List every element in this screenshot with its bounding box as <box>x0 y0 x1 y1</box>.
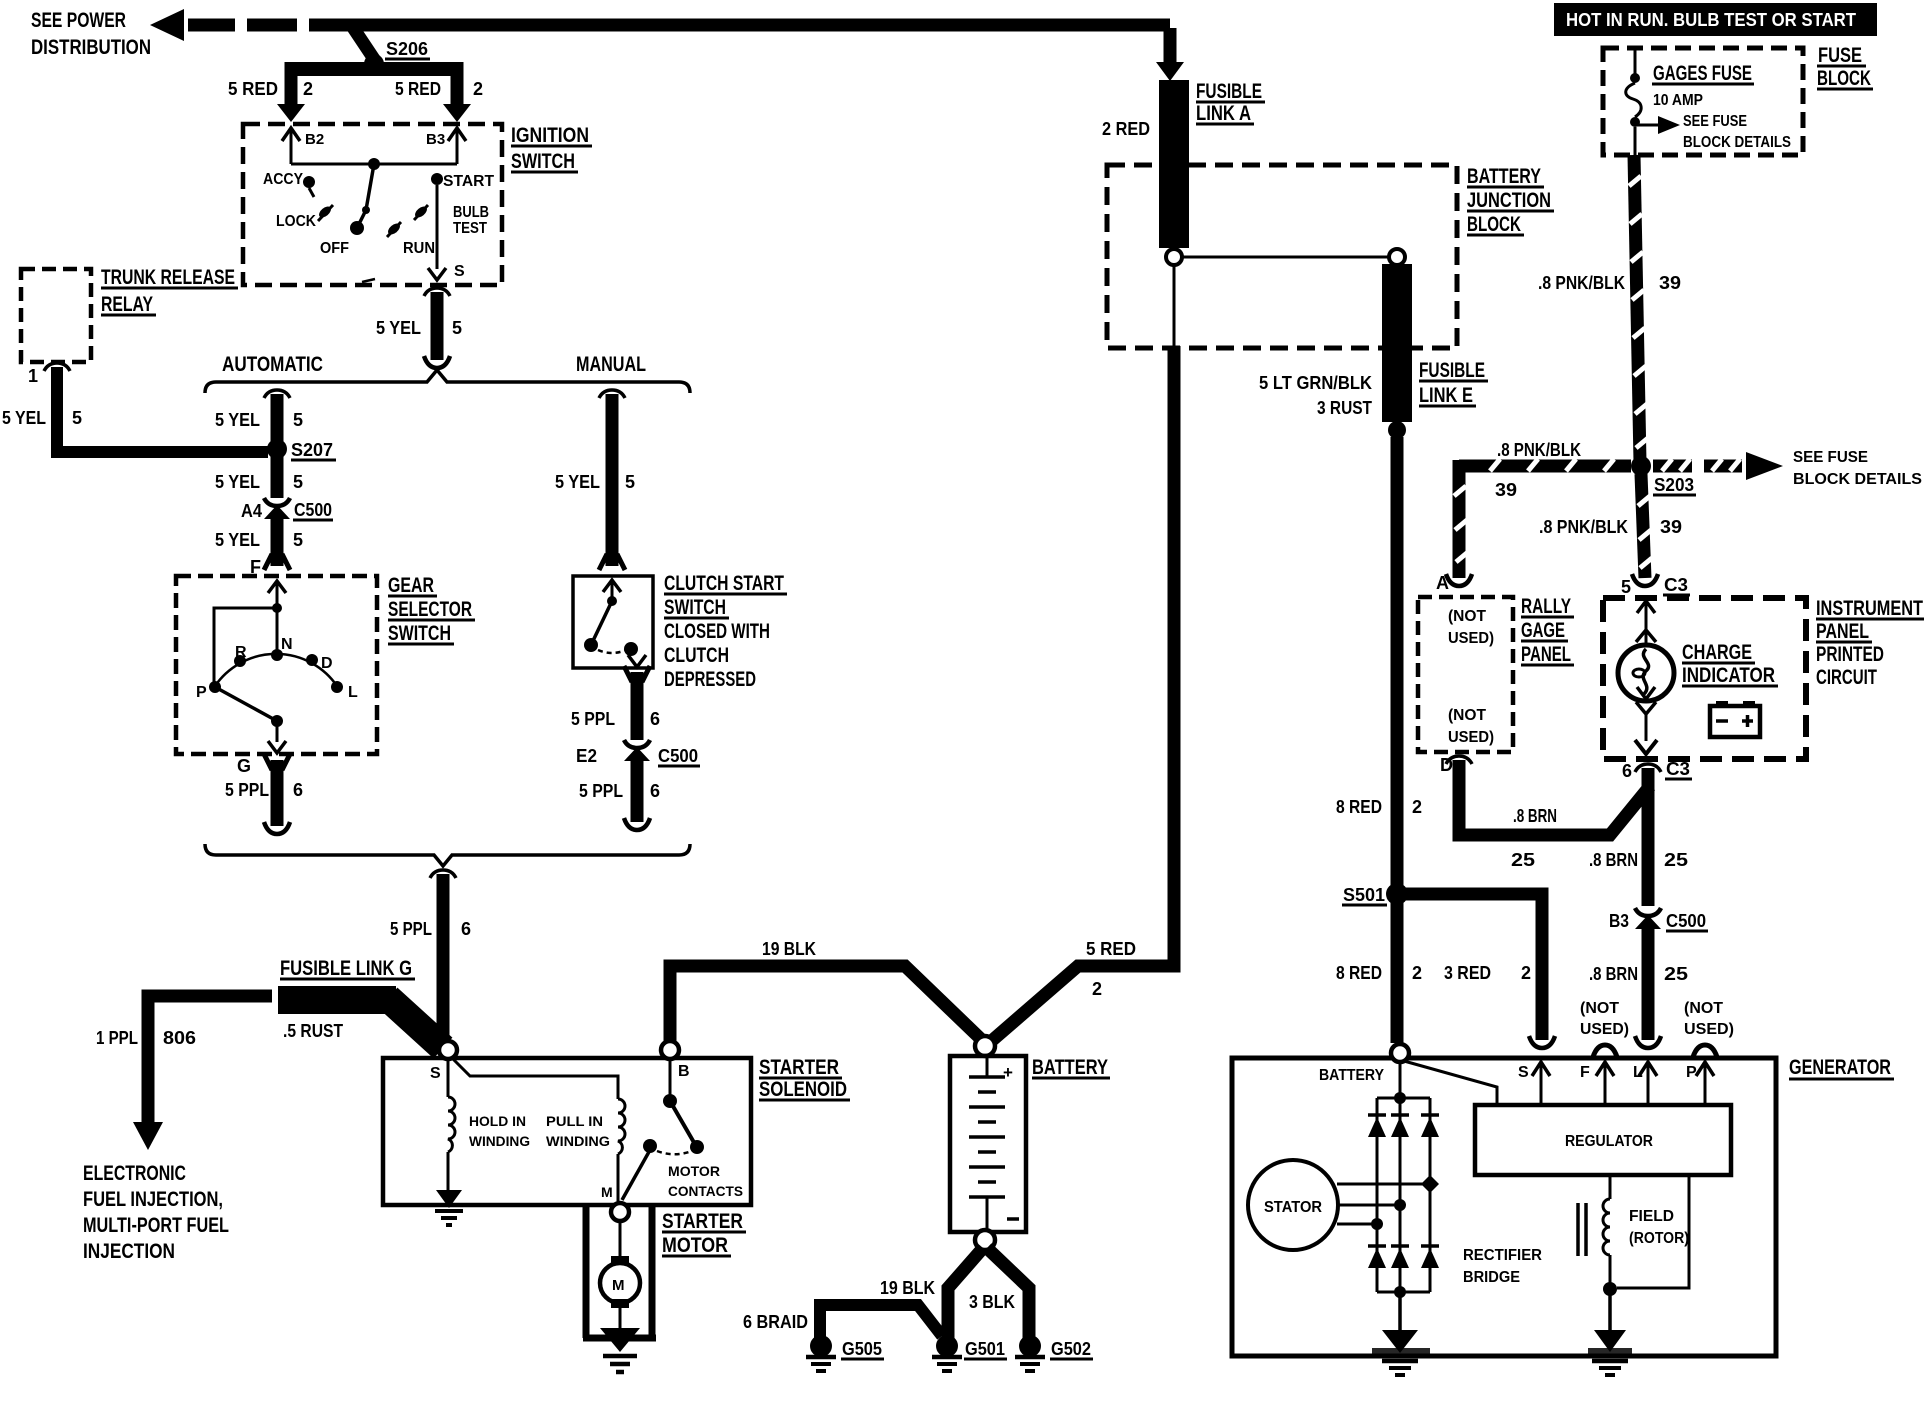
svg-text:GAGE: GAGE <box>1521 619 1565 642</box>
label MOTOR CONTACTS <box>668 1163 743 1199</box>
svg-text:5 YEL: 5 YEL <box>2 408 46 428</box>
svg-text:CLUTCH START: CLUTCH START <box>664 572 784 595</box>
svg-text:6: 6 <box>650 709 660 729</box>
svg-text:B: B <box>678 1063 690 1080</box>
svg-text:25: 25 <box>1664 850 1688 870</box>
generator terminal L <box>1633 1062 1657 1105</box>
ignition internal bus wire <box>291 163 457 166</box>
wire 5 RED below junction block <box>1168 346 1181 962</box>
solenoid internal wire S to pull-in <box>452 1058 618 1099</box>
gear selector switch box <box>176 576 377 754</box>
wire 5 RED bus below S206 <box>285 62 461 76</box>
label PULL IN WINDING <box>546 1113 610 1149</box>
gear selector input arrow <box>268 581 286 652</box>
ignition rotor junction <box>368 158 380 170</box>
svg-text:2: 2 <box>1092 979 1102 999</box>
terminal M circle <box>601 1184 629 1221</box>
striped dashed arrow S203 to see fuse block details <box>1653 449 1922 488</box>
svg-text:S: S <box>454 263 465 280</box>
svg-text:6: 6 <box>461 919 471 939</box>
node S207 <box>267 439 336 460</box>
banner HOT IN RUN BULB TEST OR START <box>1554 3 1877 36</box>
svg-text:5: 5 <box>293 472 303 492</box>
svg-text:SWITCH: SWITCH <box>664 596 726 619</box>
svg-text:S206: S206 <box>386 39 428 59</box>
svg-text:8 RED: 8 RED <box>1336 797 1382 817</box>
battery cells <box>969 1056 1019 1230</box>
rectifier bridge rails <box>1377 1092 1430 1298</box>
ignition S terminal wire <box>362 185 465 282</box>
wire 19 BLK solenoid B to battery <box>670 939 985 1043</box>
svg-text:WINDING: WINDING <box>469 1133 530 1149</box>
junction block internal bus <box>1166 249 1405 348</box>
svg-text:E2: E2 <box>576 746 597 766</box>
svg-text:USED): USED) <box>1448 630 1494 647</box>
connector E2 C500 <box>576 740 700 766</box>
svg-text:CONTACTS: CONTACTS <box>668 1183 743 1199</box>
svg-text:.8 BRN: .8 BRN <box>1589 850 1638 870</box>
wire 5 YEL relay to S207 <box>2 363 268 452</box>
label INSTRUMENT PANEL PRINTED CIRCUIT <box>1816 597 1924 689</box>
svg-text:OFF: OFF <box>320 240 349 257</box>
trunk release relay box <box>21 269 91 362</box>
svg-text:(NOT: (NOT <box>1684 1000 1723 1017</box>
svg-text:WINDING: WINDING <box>546 1133 610 1149</box>
svg-text:IGNITION: IGNITION <box>511 124 589 147</box>
svg-text:LOCK: LOCK <box>276 213 316 230</box>
ground G505 <box>806 1335 884 1371</box>
wire 1 PPL to EFI <box>96 996 272 1150</box>
stator phase wires <box>1337 1175 1439 1230</box>
ignition contact ACCY <box>263 171 315 197</box>
svg-text:8 RED: 8 RED <box>1336 963 1382 983</box>
svg-text:.8 BRN: .8 BRN <box>1589 964 1638 984</box>
svg-text:S203: S203 <box>1654 475 1694 495</box>
svg-text:SELECTOR: SELECTOR <box>388 598 472 621</box>
svg-text:M: M <box>612 1277 625 1294</box>
svg-text:5 PPL: 5 PPL <box>579 781 623 801</box>
gear selector wiper <box>215 687 286 753</box>
svg-text:806: 806 <box>163 1028 196 1048</box>
label RALLY GAGE PANEL <box>1521 595 1574 666</box>
svg-text:.8 PNK/BLK: .8 PNK/BLK <box>1497 440 1581 460</box>
charge indicator lamp <box>1618 601 1674 754</box>
svg-text:SEE FUSE: SEE FUSE <box>1683 113 1747 130</box>
label GENERATOR <box>1789 1056 1894 1079</box>
generator terminal S <box>1518 1062 1550 1105</box>
svg-text:BATTERY: BATTERY <box>1467 165 1541 188</box>
svg-text:.8 PNK/BLK: .8 PNK/BLK <box>1538 273 1625 293</box>
wire .8 PNK/BLK S203 left branch to rally gage A (striped) <box>1446 440 1631 586</box>
wire 5 PPL from gear selector G <box>225 754 303 834</box>
label BATTERY <box>1032 1056 1110 1079</box>
svg-text:.5 RUST: .5 RUST <box>283 1021 343 1041</box>
rectifier diodes lower <box>1368 1246 1439 1268</box>
svg-text:C500: C500 <box>658 746 698 766</box>
svg-text:2 RED: 2 RED <box>1102 119 1150 139</box>
svg-text:3 BLK: 3 BLK <box>969 1292 1015 1312</box>
wire regulator to field return <box>1617 1175 1689 1288</box>
ground G501 <box>932 1335 1007 1371</box>
svg-text:2: 2 <box>1412 963 1422 983</box>
svg-text:.8 BRN: .8 BRN <box>1513 806 1557 826</box>
ignition contact START <box>431 173 494 190</box>
svg-text:6: 6 <box>650 781 660 801</box>
stator circle <box>1248 1160 1338 1250</box>
svg-text:39: 39 <box>1659 273 1681 293</box>
wire 5 YEL automatic branch upper <box>215 390 303 498</box>
label FIELD ROTOR <box>1629 1208 1689 1247</box>
svg-text:GENERATOR: GENERATOR <box>1789 1056 1891 1079</box>
svg-text:SOLENOID: SOLENOID <box>759 1078 847 1101</box>
svg-text:S: S <box>430 1065 441 1082</box>
svg-text:MANUAL: MANUAL <box>576 353 646 376</box>
label NOT USED lower <box>1448 707 1494 746</box>
ignition wiper to OFF <box>350 164 374 235</box>
wire dashed feed to power distribution with arrowhead <box>150 9 354 41</box>
label HOLD IN WINDING <box>469 1113 530 1149</box>
svg-text:SWITCH: SWITCH <box>511 150 575 173</box>
svg-text:D: D <box>321 655 333 672</box>
svg-text:STARTER: STARTER <box>662 1210 743 1233</box>
svg-text:M: M <box>601 1184 613 1200</box>
svg-text:A: A <box>1436 573 1449 593</box>
gages fuse <box>1626 48 1754 155</box>
connector B3 C500 <box>1609 908 1708 931</box>
svg-text:PRINTED: PRINTED <box>1816 643 1884 666</box>
svg-text:ELECTRONIC: ELECTRONIC <box>83 1162 186 1185</box>
brace automatic/manual split <box>205 370 690 393</box>
svg-text:INJECTION: INJECTION <box>83 1240 175 1263</box>
svg-text:S501: S501 <box>1343 885 1385 905</box>
svg-text:5: 5 <box>452 318 462 338</box>
svg-text:3 RUST: 3 RUST <box>1317 398 1372 418</box>
connector A4 C500 <box>241 498 333 521</box>
svg-text:R: R <box>235 644 247 661</box>
svg-text:PULL IN: PULL IN <box>546 1113 603 1129</box>
starter motor ground <box>600 1328 640 1372</box>
svg-text:5 RED: 5 RED <box>1086 939 1136 959</box>
svg-text:GAGES FUSE: GAGES FUSE <box>1653 62 1752 85</box>
label NOT USED at P <box>1684 1000 1734 1057</box>
svg-text:GEAR: GEAR <box>388 574 434 597</box>
label CHARGE INDICATOR <box>1682 641 1778 687</box>
svg-text:BRIDGE: BRIDGE <box>1463 1269 1520 1286</box>
svg-text:FUSIBLE LINK G: FUSIBLE LINK G <box>280 957 412 980</box>
terminal S circle <box>430 1041 457 1082</box>
starter motor armature <box>600 1221 640 1330</box>
svg-text:PANEL: PANEL <box>1521 643 1571 666</box>
ignition terminal B2 <box>282 128 324 164</box>
wire 5 YEL manual branch <box>555 390 635 570</box>
svg-text:5 YEL: 5 YEL <box>215 472 260 492</box>
svg-text:LINK E: LINK E <box>1419 384 1473 407</box>
svg-text:DISTRIBUTION: DISTRIBUTION <box>31 36 151 59</box>
svg-text:RELAY: RELAY <box>101 293 153 316</box>
svg-text:N: N <box>281 636 293 653</box>
label RECTIFIER BRIDGE <box>1463 1247 1542 1286</box>
svg-text:P: P <box>196 684 207 701</box>
svg-text:HOLD IN: HOLD IN <box>469 1113 526 1129</box>
svg-text:CIRCUIT: CIRCUIT <box>1816 666 1877 689</box>
svg-text:SEE FUSE: SEE FUSE <box>1793 449 1868 466</box>
wire battery terminal to regulator <box>1404 1061 1497 1105</box>
rectifier ground <box>1372 1292 1430 1375</box>
wire .8 BRN rally D to C3-6 <box>1446 756 1650 870</box>
fusible link A <box>1159 80 1265 248</box>
svg-text:5 RED: 5 RED <box>228 79 278 99</box>
wire .8 BRN C3-6 to C500 <box>1589 768 1688 906</box>
wire 19 BLK battery to G501 <box>948 1248 983 1338</box>
svg-text:.8 PNK/BLK: .8 PNK/BLK <box>1539 517 1628 537</box>
pull-in winding coil <box>618 1099 625 1203</box>
svg-text:25: 25 <box>1664 964 1688 984</box>
ignition terminal B3 <box>426 128 466 164</box>
svg-text:CHARGE: CHARGE <box>1682 641 1752 664</box>
svg-text:25: 25 <box>1511 850 1535 870</box>
svg-text:1: 1 <box>28 366 38 386</box>
svg-text:(NOT: (NOT <box>1448 608 1486 625</box>
svg-text:INSTRUMENT: INSTRUMENT <box>1816 597 1923 620</box>
svg-text:G502: G502 <box>1051 1339 1091 1359</box>
field ground <box>1588 1330 1632 1375</box>
label FUSE BLOCK <box>1817 44 1873 90</box>
svg-text:FUEL INJECTION,: FUEL INJECTION, <box>83 1188 223 1211</box>
wire 5 YEL from ignition S <box>376 288 462 368</box>
svg-text:S: S <box>1518 1064 1529 1081</box>
svg-text:STATOR: STATOR <box>1264 1199 1322 1216</box>
svg-text:2: 2 <box>1521 963 1531 983</box>
svg-text:USED): USED) <box>1580 1021 1629 1038</box>
connector 5 C3 <box>1621 575 1690 597</box>
svg-text:RALLY: RALLY <box>1521 595 1571 618</box>
battery minus terminal circle <box>975 1230 995 1250</box>
generator terminal F <box>1580 1062 1614 1105</box>
svg-text:6: 6 <box>1622 761 1632 781</box>
svg-text:SWITCH: SWITCH <box>388 622 451 645</box>
svg-text:6 BRAID: 6 BRAID <box>743 1312 808 1332</box>
wire main feed bus top <box>350 19 1170 32</box>
label CLUTCH START SWITCH CLOSED WITH CLUTCH DEPRESSED <box>664 572 787 691</box>
wire 3 RED S501 to generator S <box>1397 894 1555 1048</box>
svg-text:ACCY: ACCY <box>263 171 303 188</box>
svg-text:BLOCK DETAILS: BLOCK DETAILS <box>1683 134 1791 151</box>
rectifier diodes upper <box>1368 1115 1439 1137</box>
svg-text:5: 5 <box>293 410 303 430</box>
svg-text:39: 39 <box>1660 517 1682 537</box>
svg-text:5 PPL: 5 PPL <box>571 709 615 729</box>
fusible link G fat link <box>278 998 443 1048</box>
wire 5 PPL main to starter solenoid <box>390 870 471 1046</box>
svg-text:B2: B2 <box>305 131 324 148</box>
svg-text:(NOT: (NOT <box>1448 707 1486 724</box>
svg-text:5 LT GRN/BLK: 5 LT GRN/BLK <box>1259 373 1372 393</box>
svg-text:19 BLK: 19 BLK <box>880 1278 935 1298</box>
battery box <box>950 1056 1026 1232</box>
svg-text:TRUNK RELEASE: TRUNK RELEASE <box>101 266 235 289</box>
svg-text:CLOSED WITH: CLOSED WITH <box>664 620 770 643</box>
svg-text:(NOT: (NOT <box>1580 1000 1619 1017</box>
svg-text:LINK A: LINK A <box>1196 102 1251 125</box>
svg-text:BLOCK DETAILS: BLOCK DETAILS <box>1793 471 1922 488</box>
label BATTERY JUNCTION BLOCK <box>1467 165 1554 236</box>
wire diagonal into node S206 <box>350 23 376 62</box>
svg-text:6: 6 <box>293 780 303 800</box>
svg-text:2: 2 <box>473 79 483 99</box>
svg-text:FUSIBLE: FUSIBLE <box>1196 80 1262 103</box>
rotor core bars <box>1578 1203 1586 1256</box>
starter motor enclosure <box>583 1205 656 1338</box>
fusible link G label <box>280 957 415 980</box>
svg-text:SEE POWER: SEE POWER <box>31 9 126 32</box>
battery icon instrument panel <box>1710 701 1760 737</box>
svg-text:BATTERY: BATTERY <box>1032 1056 1108 1079</box>
svg-text:2: 2 <box>303 79 313 99</box>
svg-text:F: F <box>1580 1064 1590 1081</box>
wire 5 RED left drop to ignition B2 <box>228 62 313 122</box>
svg-text:AUTOMATIC: AUTOMATIC <box>222 353 323 376</box>
svg-text:MOTOR: MOTOR <box>662 1234 728 1257</box>
svg-text:+: + <box>1003 1063 1013 1082</box>
svg-text:P: P <box>1686 1064 1697 1081</box>
svg-text:RECTIFIER: RECTIFIER <box>1463 1247 1542 1264</box>
gear contacts P R N D L <box>196 636 358 701</box>
label SEE POWER DISTRIBUTION <box>31 9 151 59</box>
svg-text:RUN: RUN <box>403 240 435 257</box>
ignition switch box <box>243 124 502 285</box>
fuse block box <box>1603 48 1803 155</box>
svg-text:FUSE: FUSE <box>1818 44 1862 67</box>
gear selector contact arc <box>215 654 337 686</box>
svg-text:5 PPL: 5 PPL <box>390 919 432 939</box>
label STARTER SOLENOID <box>759 1056 850 1101</box>
gear selector junction <box>272 603 282 613</box>
generator terminal P <box>1686 1062 1714 1105</box>
svg-text:10 AMP: 10 AMP <box>1653 92 1703 109</box>
wire .8 PNK/BLK fuse to S203 (striped) <box>1538 155 1681 462</box>
solenoid internal ground <box>435 1190 463 1225</box>
battery plus terminal circle <box>975 1036 995 1056</box>
wire 2 RED drop to fusible link A <box>1102 28 1184 139</box>
svg-text:C3: C3 <box>1664 575 1688 595</box>
label ELECTRONIC FUEL INJECTION <box>83 1162 229 1263</box>
svg-text:5 PPL: 5 PPL <box>225 780 269 800</box>
svg-text:C500: C500 <box>1666 911 1706 931</box>
svg-text:A4: A4 <box>241 501 262 521</box>
svg-text:JUNCTION: JUNCTION <box>1467 189 1551 212</box>
svg-text:CLUTCH: CLUTCH <box>664 644 729 667</box>
svg-text:5 YEL: 5 YEL <box>376 318 421 338</box>
svg-text:L: L <box>348 684 358 701</box>
see fuse block details arrow (in fuse block) <box>1635 113 1791 151</box>
svg-text:MOTOR: MOTOR <box>668 1163 720 1179</box>
wire 5 YEL automatic branch lower to F <box>215 514 303 577</box>
svg-text:BLOCK: BLOCK <box>1817 67 1871 90</box>
label STARTER MOTOR <box>662 1210 746 1257</box>
label IGNITION SWITCH <box>511 124 592 173</box>
motor contacts switch <box>622 1059 704 1200</box>
svg-text:G: G <box>237 756 251 776</box>
svg-text:BATTERY: BATTERY <box>1319 1067 1384 1084</box>
svg-text:PANEL: PANEL <box>1816 620 1869 643</box>
battery junction block box <box>1107 165 1457 348</box>
ignition contact RUN <box>386 204 435 257</box>
node S203 <box>1631 456 1696 495</box>
svg-text:INDICATOR: INDICATOR <box>1682 664 1775 687</box>
wire 5 PPL below E2 connector <box>579 757 660 830</box>
fusible link E <box>1259 264 1488 439</box>
label BULB TEST <box>453 204 489 237</box>
svg-text:STARTER: STARTER <box>759 1056 839 1079</box>
svg-text:FIELD: FIELD <box>1629 1208 1674 1225</box>
clutch switch internals <box>584 580 646 667</box>
svg-text:USED): USED) <box>1448 729 1494 746</box>
svg-text:HOT IN RUN. BULB TEST OR START: HOT IN RUN. BULB TEST OR START <box>1566 10 1856 30</box>
svg-text:39: 39 <box>1495 480 1517 500</box>
svg-text:G505: G505 <box>842 1339 882 1359</box>
svg-text:2: 2 <box>1412 797 1422 817</box>
clutch start switch box <box>573 576 653 668</box>
svg-text:1 PPL: 1 PPL <box>96 1028 138 1048</box>
svg-text:MULTI-PORT FUEL: MULTI-PORT FUEL <box>83 1214 229 1237</box>
svg-text:5 YEL: 5 YEL <box>215 410 260 430</box>
brace merge automatic/manual <box>205 844 690 866</box>
svg-text:B3: B3 <box>426 131 445 148</box>
terminal B circle <box>661 1041 690 1080</box>
svg-text:B3: B3 <box>1609 911 1629 931</box>
label TRUNK RELEASE RELAY <box>101 266 238 316</box>
svg-text:5: 5 <box>72 408 82 428</box>
svg-text:(ROTOR): (ROTOR) <box>1629 1230 1689 1247</box>
svg-text:TEST: TEST <box>453 220 487 237</box>
svg-text:5: 5 <box>625 472 635 492</box>
wire 6 BRAID to G505 <box>743 1305 942 1338</box>
rally gage panel box <box>1418 597 1513 752</box>
wire 3 BLK battery to G502 <box>987 1248 1029 1338</box>
wire .8 BRN C500 to generator L <box>1589 924 1688 1048</box>
svg-text:5 RED: 5 RED <box>395 79 441 99</box>
svg-text:5: 5 <box>1621 577 1631 597</box>
wire 5 RED right drop to ignition B3 <box>395 62 483 122</box>
instrument panel printed circuit box <box>1603 598 1806 759</box>
svg-text:START: START <box>443 173 494 190</box>
node S206 <box>364 39 430 74</box>
wire 5 RED junction block to battery <box>988 939 1174 1044</box>
label NOT USED upper <box>1448 608 1494 647</box>
svg-text:19 BLK: 19 BLK <box>762 939 816 959</box>
wire 8 RED S501 to generator battery terminal <box>1336 902 1422 1043</box>
svg-text:5 YEL: 5 YEL <box>555 472 600 492</box>
wire 8 RED link E to S501 <box>1336 437 1422 886</box>
gear selector link to P <box>214 608 277 684</box>
ignition contact LOCK <box>276 204 333 230</box>
svg-text:BLOCK: BLOCK <box>1467 213 1521 236</box>
svg-text:3 RED: 3 RED <box>1444 963 1491 983</box>
regulator box <box>1475 1105 1731 1175</box>
svg-text:5 YEL: 5 YEL <box>215 530 260 550</box>
label GEAR SELECTOR SWITCH <box>388 574 475 645</box>
field rotor coil <box>1603 1175 1617 1330</box>
svg-text:5: 5 <box>293 530 303 550</box>
node S501 <box>1342 883 1408 905</box>
svg-text:G501: G501 <box>965 1339 1005 1359</box>
svg-text:REGULATOR: REGULATOR <box>1565 1133 1653 1150</box>
generator BATTERY terminal <box>1319 1044 1409 1084</box>
svg-text:USED): USED) <box>1684 1021 1734 1038</box>
label NOT USED at F <box>1580 1000 1629 1057</box>
starter solenoid box <box>383 1058 751 1205</box>
svg-text:C3: C3 <box>1666 759 1690 779</box>
